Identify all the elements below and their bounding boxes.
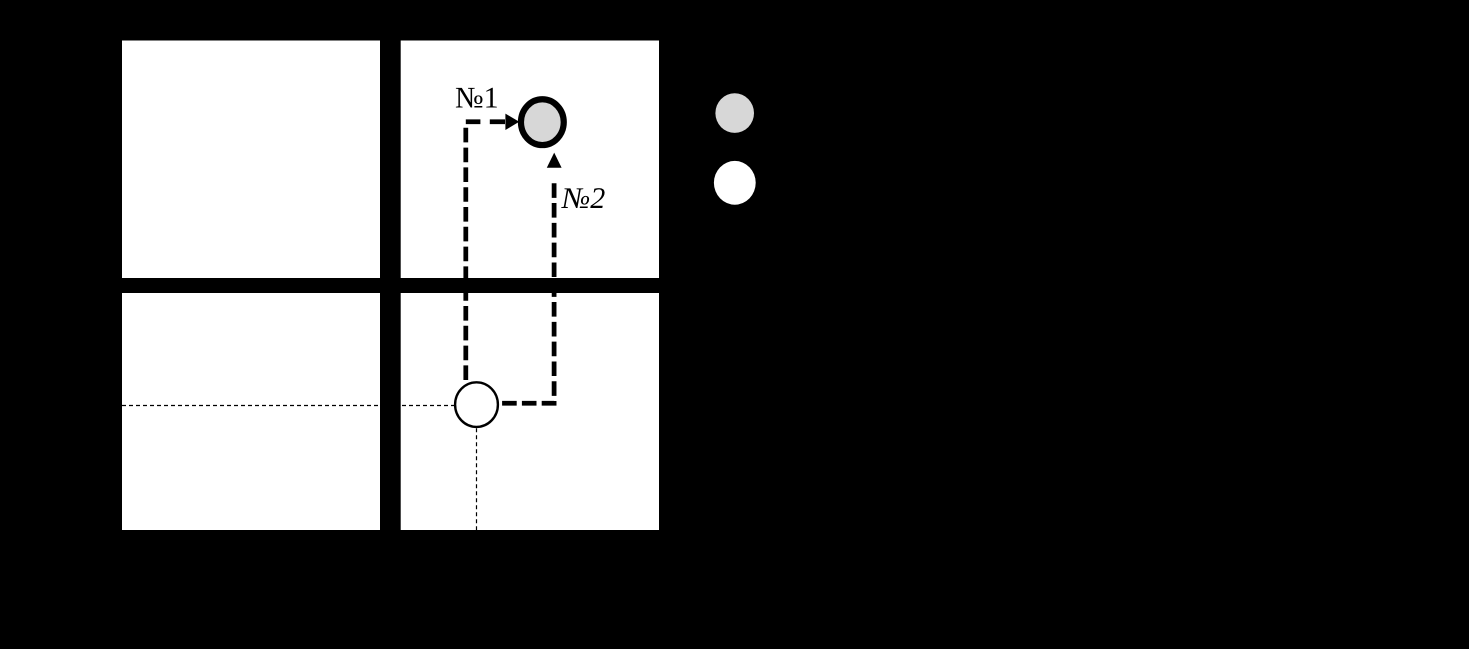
label No1 <box>456 88 497 108</box>
room top-left <box>122 41 380 279</box>
route path No2 (dashed) <box>500 178 554 403</box>
legend gray circle <box>715 93 754 133</box>
route path No1 horizontal segment <box>466 119 505 124</box>
destination circle (gray, thick ring) <box>521 99 564 145</box>
route path No1 (dashed) <box>463 124 468 380</box>
start circle (white, thin ring) <box>455 382 498 427</box>
thin dashed vertical guide line <box>476 428 478 530</box>
arrowhead No2 <box>547 153 562 168</box>
thin dashed horizontal guide line <box>122 405 455 407</box>
room bottom-left <box>122 293 380 530</box>
label No2 <box>561 188 605 208</box>
legend white circle <box>714 161 756 205</box>
room top-right <box>401 41 659 279</box>
room bottom-right <box>401 293 659 530</box>
arrowhead No1 <box>505 114 519 130</box>
